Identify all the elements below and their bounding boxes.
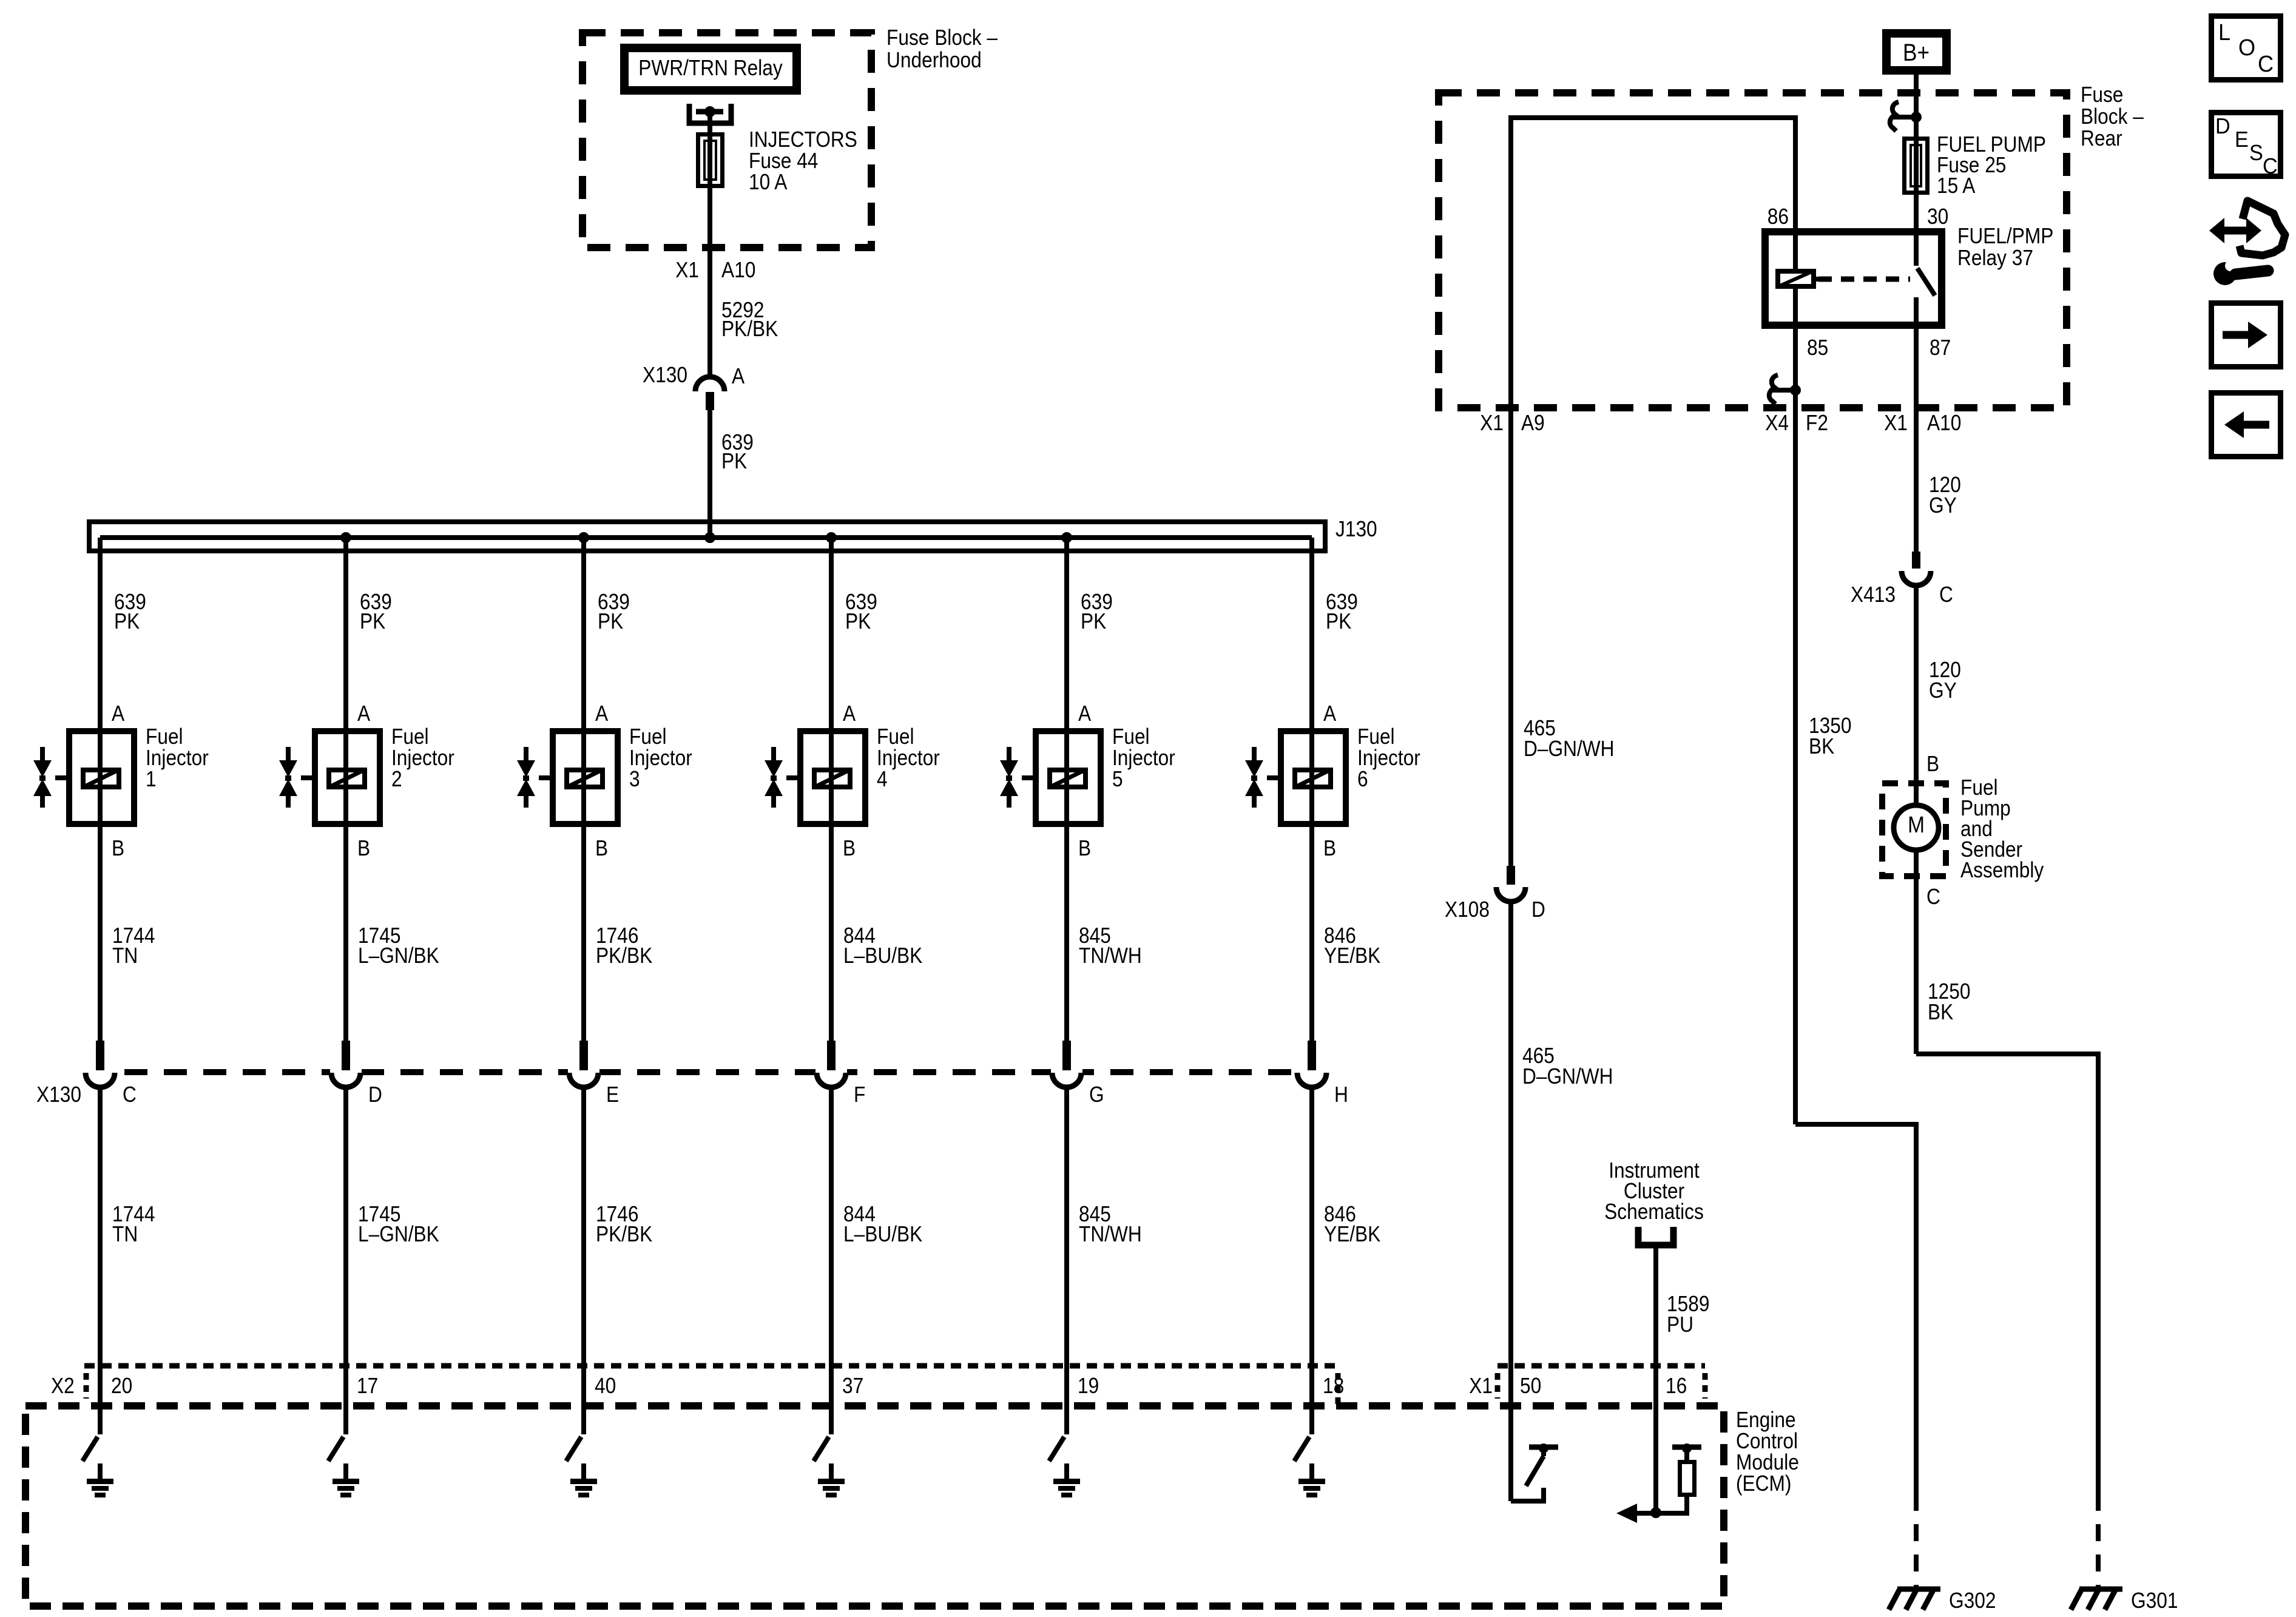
fuse F44 INJECTORS 10A [698,135,723,186]
svg-text:B: B [357,836,370,860]
svg-text:D: D [2215,114,2230,138]
svg-text:40: 40 [595,1374,616,1398]
svg-text:L: L [2218,19,2230,45]
svg-text:F2: F2 [1806,411,1828,435]
wire 845 TN/WH from injector 5 [1064,827,1069,1041]
fuel injector 4 box [800,731,865,824]
connector X413 terminal C [1912,552,1920,569]
coil injector 6 [1295,770,1331,787]
splice clip on B+ feed [1890,102,1899,131]
fuse F25 FUEL PUMP 15A [1905,139,1928,193]
svg-text:PK: PK [721,449,748,473]
svg-text:C: C [1939,582,1953,607]
svg-text:D–GN/WH: D–GN/WH [1522,1064,1613,1089]
relay coil [1778,271,1814,286]
svg-text:X1: X1 [1480,411,1504,435]
svg-text:FUEL/PMP: FUEL/PMP [1957,224,2053,248]
svg-text:A: A [1078,701,1091,726]
coil injector 3 [567,770,603,787]
wire 1745 to ECM pin 17 [343,1087,348,1434]
svg-text:G301: G301 [2131,1588,2178,1613]
fuel injector 5 box [1036,731,1101,824]
svg-text:A: A [112,701,124,726]
ground symbol ECM injector 4 driver [818,1479,845,1484]
valve symbol injector 1 [40,747,45,762]
nav icon forward arrow box [2212,303,2281,367]
svg-text:2: 2 [391,767,402,791]
svg-text:X130: X130 [36,1082,81,1107]
connector X130 terminal F [815,1065,847,1079]
relay PWR/TRN Relay box [624,48,797,90]
chassis ground G302 [1897,1587,1940,1592]
svg-text:18: 18 [1323,1374,1344,1398]
relay actuation dashed link [1818,277,1910,282]
junction dot J130 tap 3 [578,532,589,543]
ECM driver switch for injector 1 [83,1437,98,1461]
nav icon LOC box [2212,16,2281,80]
svg-text:Fuse Block –: Fuse Block – [886,25,998,50]
wire through injector 2 [343,728,348,827]
wire B+ to fuse 25 [1914,75,1919,266]
fuse block bus bracket under PWR/TRN relay [689,104,731,123]
wire through injector 6 [1309,728,1314,827]
svg-text:G: G [1089,1082,1104,1107]
splice clip on pin 85 wire [1769,375,1778,404]
svg-text:PK/BK: PK/BK [721,317,778,341]
svg-text:PK: PK [1081,609,1107,633]
svg-text:PK/BK: PK/BK [596,944,653,968]
wire 846 YE/BK from injector 6 [1309,827,1314,1041]
svg-text:Block –: Block – [2081,104,2144,129]
svg-text:TN/WH: TN/WH [1079,1222,1142,1246]
svg-text:X4: X4 [1765,411,1789,435]
ECM pin 16 internal driver [1650,1507,1661,1518]
wire 1589 PU [1653,1245,1658,1513]
wire through injector 4 [829,728,834,827]
svg-text:A: A [843,701,856,726]
svg-text:X108: X108 [1445,897,1490,922]
svg-text:X1: X1 [675,258,699,282]
svg-text:85: 85 [1807,336,1828,360]
svg-text:PK: PK [1326,609,1352,633]
engine control module dashed box [25,1406,1724,1606]
coil injector 5 [1050,770,1086,787]
svg-text:D–GN/WH: D–GN/WH [1524,737,1615,761]
svg-text:30: 30 [1927,204,1948,229]
junction dot feed [704,532,715,543]
svg-text:6: 6 [1357,767,1368,791]
svg-text:B: B [112,836,124,860]
wire relay pin 87 to X1 A10 [1914,297,1919,552]
coil injector 2 [329,770,365,787]
svg-text:GY: GY [1929,678,1957,703]
wire 1745 L–GN/BK from injector 2 [343,827,348,1041]
wire 639 PK drop to injector 5 [1064,538,1069,728]
wire 639 PK drop to injector 1 [98,538,103,728]
wire 120 GY label lower [1914,586,1919,783]
svg-text:M: M [1908,812,1925,837]
wire 465 D-GN/WH to ECM pin 50 [1508,902,1513,1501]
valve symbol injector 2 [286,747,291,762]
svg-text:A10: A10 [1927,411,1961,435]
wire 639 PK drop to injector 3 [581,538,586,728]
svg-text:B: B [1323,836,1336,860]
svg-text:PK: PK [360,609,386,633]
svg-text:E: E [2235,127,2249,152]
svg-text:10 A: 10 A [749,170,788,194]
relay coil tab [1816,277,1823,282]
ground symbol ECM injector 1 driver [87,1479,113,1484]
junction dot J130 tap 4 [826,532,837,543]
svg-text:X1: X1 [1469,1374,1493,1398]
svg-text:YE/BK: YE/BK [1324,1222,1381,1246]
svg-text:15 A: 15 A [1937,174,1976,198]
ECM driver switch for injector 3 [566,1437,581,1461]
connector X130 dashed row [85,1069,1326,1075]
relay FUEL/PMP Relay 37 box [1765,232,1942,325]
wire 639 PK drop to injector 4 [829,538,834,728]
connector X1 dotted row at ECM [1497,1363,1705,1369]
svg-text:37: 37 [842,1374,863,1398]
ECM driver switch for injector 6 [1294,1437,1309,1461]
ECM driver switch for injector 2 [328,1437,343,1461]
svg-text:L–BU/BK: L–BU/BK [843,1222,923,1246]
wire fuel pump return to G301 [1916,1054,2098,1497]
svg-text:B: B [843,836,856,860]
svg-text:A9: A9 [1521,411,1545,435]
svg-text:TN: TN [112,1222,138,1246]
svg-text:X2: X2 [51,1374,75,1398]
svg-text:A: A [357,701,370,726]
svg-text:X130: X130 [643,363,687,387]
svg-text:17: 17 [357,1374,378,1398]
svg-text:TN/WH: TN/WH [1079,944,1142,968]
battery feed B+ box [1886,33,1947,70]
ground symbol ECM injector 3 driver [570,1479,597,1484]
coil injector 1 [83,770,119,787]
wire 845 to ECM pin 19 [1064,1087,1069,1434]
connector X130 terminal E [568,1065,599,1079]
svg-text:B: B [595,836,608,860]
ground symbol ECM injector 2 driver [333,1479,359,1484]
svg-text:Schematics: Schematics [1604,1200,1704,1224]
svg-text:PK/BK: PK/BK [596,1222,653,1246]
fuse block - rear dashed box [1439,93,2067,408]
wire 1744 to ECM pin 20 [98,1087,103,1434]
nav icon harness routing with wrench [2222,227,2249,235]
splice pack J130 outer box [89,522,1325,551]
wire 1746 to ECM pin 40 [581,1087,586,1434]
fuel injector 1 box [69,731,134,824]
svg-text:A: A [1323,701,1336,726]
svg-text:E: E [606,1082,619,1107]
svg-text:1: 1 [146,767,157,791]
svg-text:C: C [1926,885,1940,909]
splice pack J130 inner bus bar [100,535,1312,540]
wire 844 to ECM pin 37 [829,1087,834,1434]
wire through injector 1 [98,728,103,827]
svg-text:F: F [854,1082,865,1107]
ECM driver switch for injector 5 [1049,1437,1064,1461]
svg-text:X413: X413 [1851,582,1896,607]
valve symbol injector 4 [771,747,776,762]
fuel injector 2 box [315,731,380,824]
wire 639 PK drop to injector 6 [1309,538,1314,728]
valve symbol injector 5 [1007,747,1011,762]
svg-text:(ECM): (ECM) [1736,1471,1791,1496]
svg-text:D: D [1531,897,1545,922]
svg-text:Relay 37: Relay 37 [1957,246,2033,270]
wire 846 to ECM pin 18 [1309,1087,1314,1434]
chassis ground G301 [2079,1587,2122,1592]
fuel injector 3 box [553,731,618,824]
nav icon back arrow box [2212,393,2281,457]
off-page bracket to instrument cluster [1638,1227,1673,1245]
wire through injector 3 [581,728,586,827]
svg-text:L–BU/BK: L–BU/BK [843,944,923,968]
ground symbol ECM injector 6 driver [1298,1479,1325,1484]
svg-text:PK: PK [598,609,624,633]
svg-text:J130: J130 [1335,517,1377,541]
fuel injector 6 box [1281,731,1346,824]
connector X108 terminal D [1507,866,1515,885]
svg-text:19: 19 [1078,1374,1099,1398]
svg-text:A: A [732,364,745,388]
wire 844 L–BU/BK from injector 4 [829,827,834,1041]
svg-text:H: H [1334,1082,1348,1107]
svg-text:Fuse: Fuse [2081,83,2123,107]
svg-text:A: A [595,701,608,726]
svg-text:B: B [1926,752,1939,776]
fuel pump motor [1914,783,1919,805]
svg-text:D: D [368,1082,382,1107]
svg-text:C: C [2258,50,2274,76]
svg-text:S: S [2249,141,2263,165]
svg-text:BK: BK [1809,734,1835,758]
wire from PWR/TRN relay through fuse 44 to X1 A10 [707,112,712,378]
svg-text:X1: X1 [1884,411,1908,435]
svg-text:G302: G302 [1949,1588,1996,1613]
svg-text:A10: A10 [721,258,755,282]
ECM driver switch for injector 4 [814,1437,829,1461]
svg-text:L–GN/BK: L–GN/BK [358,944,439,968]
valve symbol injector 3 [524,747,528,762]
connector X130 terminal G [1051,1065,1082,1079]
svg-text:3: 3 [629,767,640,791]
svg-text:B: B [1078,836,1091,860]
svg-text:87: 87 [1930,336,1951,360]
wire 639 PK drop to injector 2 [343,538,348,728]
connector X130 terminal A [695,377,724,391]
svg-text:YE/BK: YE/BK [1324,944,1381,968]
wire 1746 PK/BK from injector 3 [581,827,586,1041]
svg-text:O: O [2238,34,2255,60]
connector X130 terminal C [84,1065,116,1079]
svg-text:L–GN/BK: L–GN/BK [358,1222,439,1246]
wire 1744 TN from injector 1 [98,827,103,1041]
svg-text:5: 5 [1112,767,1123,791]
svg-text:TN: TN [112,944,138,968]
nav icon DESC box [2212,113,2281,177]
coil injector 4 [814,770,850,787]
junction dot J130 tap 2 [340,532,351,543]
ECM pin 50 internal switch [1511,1488,1544,1501]
connector X130 terminal H [1296,1065,1328,1079]
svg-text:PWR/TRN Relay: PWR/TRN Relay [638,56,783,80]
fuse block - underhood dashed box [582,33,871,248]
connector X130 terminal D [330,1065,362,1079]
wire 639 PK feed to J130 [707,410,712,538]
svg-text:GY: GY [1929,493,1957,518]
connector X2 dotted row [84,1363,1338,1369]
svg-text:4: 4 [877,767,888,791]
svg-text:Underhood: Underhood [886,48,982,72]
wire through injector 5 [1064,728,1069,827]
svg-text:86: 86 [1768,204,1789,229]
svg-text:PK: PK [114,609,140,633]
wire relay 85 return to G302 [1795,1124,1916,1497]
svg-text:C: C [123,1082,137,1107]
svg-text:PK: PK [845,609,871,633]
wire relay pin 86 to X1 A9 [1511,118,1795,866]
svg-text:B+: B+ [1903,39,1930,66]
svg-text:Assembly: Assembly [1960,858,2044,882]
fuel pump and sender assembly dashed box [1882,783,1946,876]
svg-text:PU: PU [1667,1312,1693,1337]
svg-text:20: 20 [111,1374,132,1398]
wire relay pin 85 to X4 F2 [1793,289,1798,1124]
svg-text:50: 50 [1520,1374,1541,1398]
junction dot on bus bracket [704,106,715,117]
svg-text:16: 16 [1666,1374,1687,1398]
ground symbol ECM injector 5 driver [1053,1479,1080,1484]
relay switch blade [1917,268,1935,295]
valve symbol injector 6 [1252,747,1257,762]
junction dot J130 tap 5 [1061,532,1072,543]
svg-text:BK: BK [1928,1000,1954,1024]
svg-text:Rear: Rear [2081,126,2122,150]
svg-text:C: C [2263,154,2278,178]
